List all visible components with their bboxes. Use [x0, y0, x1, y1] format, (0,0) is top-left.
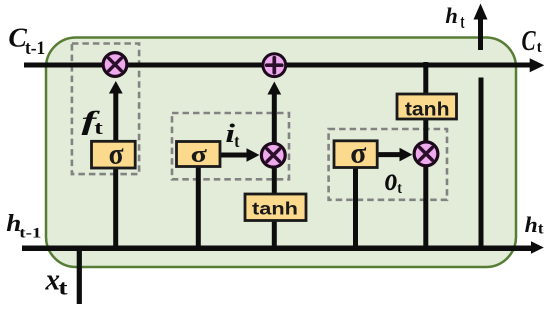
tanh box: output [397, 94, 457, 120]
wire: inner vertical h branch [479, 78, 484, 249]
svg-text:σ: σ [191, 140, 207, 167]
wire: h_t output up segment [478, 17, 483, 50]
svg-text:σ: σ [350, 137, 366, 169]
wire: output sigma to multiply arrow [377, 152, 401, 157]
wire: output sigma down to h line [353, 166, 358, 246]
wire: forget sigma up to multiply [113, 92, 118, 141]
arrowhead: into output multiply [400, 148, 413, 162]
arrowhead: into add node [267, 82, 281, 95]
wire: output tanh to multiply [423, 117, 428, 142]
svg-text:t: t [94, 117, 103, 138]
wire: input sigma down to h line [196, 167, 201, 246]
wire: forget sigma down to h line [113, 168, 118, 246]
wire: hidden state line h_t-1 to h_t [22, 245, 532, 251]
svg-text:h: h [525, 213, 538, 237]
svg-text:t: t [538, 219, 544, 237]
sigma box: output gate [334, 137, 377, 169]
svg-text:t-1: t-1 [19, 224, 41, 240]
sigma box: input gate [177, 140, 221, 167]
svg-text:h: h [445, 3, 457, 28]
svg-text:t: t [58, 276, 68, 299]
svg-text:t: t [397, 180, 402, 197]
tanh box: candidate [245, 194, 306, 221]
svg-text:t: t [460, 13, 465, 33]
wire: tanh down to h line [272, 219, 277, 246]
wire: cell state line C_t-1 to C_t [24, 63, 531, 68]
arrowhead: h_t right [531, 241, 544, 253]
wire: output multiply down to h line [423, 165, 428, 246]
svg-text:t-1: t-1 [25, 37, 45, 58]
wire: input multiply to tanh [272, 166, 277, 196]
svg-text:o: o [385, 162, 398, 197]
svg-text:tanh: tanh [405, 99, 450, 120]
add node: cell state [263, 54, 286, 77]
sigma box: forget gate [92, 139, 136, 171]
input gate dashed box [172, 113, 289, 179]
multiply node: forget gate [103, 53, 127, 77]
svg-text:t: t [234, 131, 240, 151]
wire: x_t input [77, 246, 82, 304]
wire: input sigma to multiply arrow [220, 153, 248, 158]
arrowhead: into forget multiply [109, 81, 123, 94]
arrowhead: C_t [530, 58, 545, 72]
output gate dashed box [329, 129, 447, 200]
svg-text:tanh: tanh [252, 199, 298, 219]
arrowhead: h_t up [474, 4, 488, 20]
arrowhead: into input multiply [247, 148, 260, 162]
svg-text:t: t [537, 39, 543, 57]
wire: add node up segment [272, 93, 277, 143]
multiply node: output gate [414, 142, 438, 166]
svg-text:C: C [522, 26, 537, 57]
LSTM cell body [46, 38, 516, 268]
wire: C line down to output tanh [423, 62, 428, 96]
multiply node: input gate [261, 143, 285, 167]
forget gate dashed box [72, 44, 139, 175]
svg-text:σ: σ [109, 139, 124, 171]
